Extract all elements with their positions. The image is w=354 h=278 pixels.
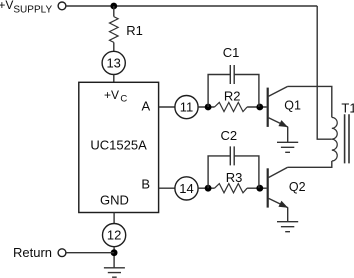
junction dot R2 left [205,104,212,111]
capacitor C1 [208,75,230,108]
ground main [104,268,125,277]
wire supply to T1 center tap [317,6,332,139]
svg-text:SUPPLY: SUPPLY [13,5,52,16]
junction dot R2 right [256,104,263,111]
svg-text:R3: R3 [226,170,243,185]
wire pin B [159,187,175,189]
node +VSUPPLY label [0,0,52,16]
junction dot R3 right [256,185,263,192]
wire Q2 collector to T1 bottom [288,161,332,167]
resistor R3 [215,184,248,193]
svg-text:C: C [120,94,127,105]
wire R1 to pin 13 [113,42,115,51]
svg-text:+V: +V [0,0,13,12]
wire R3 to Q2 base [247,187,267,189]
svg-text:+V: +V [104,88,119,102]
wire pin 14 to R3 [198,187,214,189]
svg-text:R1: R1 [126,23,143,38]
wire pin 12 to ground [113,247,115,268]
wire pin A [159,106,175,108]
transistor Q2 [267,168,269,207]
svg-text:Q2: Q2 [289,180,306,194]
wire top supply rail [66,5,317,7]
svg-text:C1: C1 [223,45,240,60]
resistor R2 [215,102,248,111]
ground Q2 [277,222,298,232]
junction dot at R1 top [110,3,117,10]
wire pin 13 to IC [113,75,115,83]
junction dot return [111,249,118,256]
transformer T1 primary winding [332,117,337,161]
svg-text:GND: GND [100,193,129,208]
svg-text:14: 14 [179,181,193,196]
svg-text:B: B [141,176,150,191]
pin 13 [102,51,125,74]
svg-text:T1: T1 [341,100,354,115]
terminal Return [58,249,66,257]
svg-text:UC1525A: UC1525A [90,137,147,152]
svg-text:Q1: Q1 [284,99,301,113]
capacitor C2 [208,156,230,188]
wire Q1 collector to T1 top [288,86,332,117]
svg-text:12: 12 [107,228,121,243]
pin 14 [175,177,198,200]
terminal +VSUPPLY [58,2,66,10]
wire R2 to Q1 base [247,106,267,108]
svg-text:Return: Return [13,245,52,260]
pin 12 [103,224,126,247]
svg-text:13: 13 [106,56,120,71]
resistor R1 [110,17,119,43]
svg-text:R2: R2 [224,89,241,104]
pin 11 [175,96,198,119]
wire junction to R1 [113,6,115,17]
junction dot R3 left [205,185,212,192]
svg-text:11: 11 [180,100,194,115]
ground Q1 [277,142,298,152]
wire return [66,252,114,254]
svg-text:A: A [141,98,150,113]
wire pin 11 to R2 [198,106,214,108]
op-amp U1 UC1525A box [79,82,159,212]
transistor Q1 [267,88,269,127]
svg-text:C2: C2 [220,128,237,143]
wire IC GND to pin 12 [113,213,115,224]
transformer T1 core [345,114,349,163]
